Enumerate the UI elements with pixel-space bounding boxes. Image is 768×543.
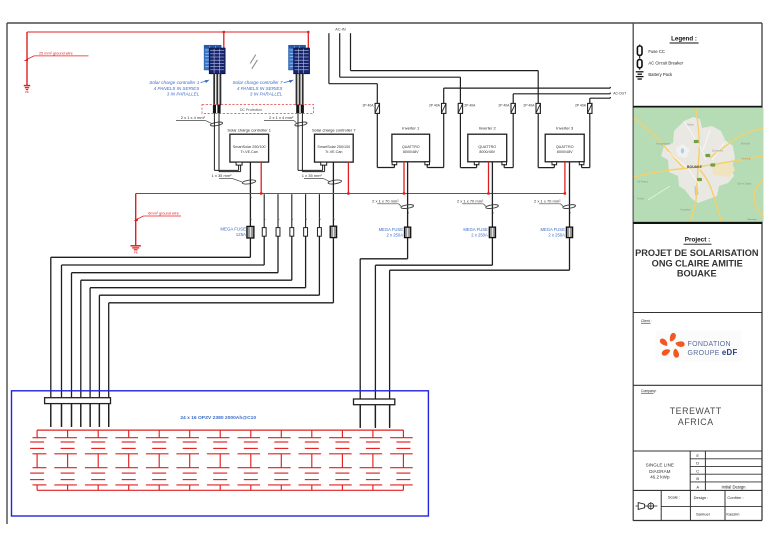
svg-text:3 IN PARALLEL: 3 IN PARALLEL <box>250 92 283 97</box>
cable marker array1 <box>210 121 223 126</box>
wire stubs into left bus bar <box>50 404 52 427</box>
wire: inverter3 positive (red) to DC bus <box>564 162 566 194</box>
fuse block F-A1 (array1 +) <box>213 105 216 113</box>
svg-text:2 x 1 x 70 mm²: 2 x 1 x 70 mm² <box>372 198 399 203</box>
junction: ground bus / array1 <box>223 31 225 33</box>
svg-text:Solar charge controller 1: Solar charge controller 1 <box>149 80 199 85</box>
wire: ground electrode drop <box>26 32 28 85</box>
wire: controller1 negative to fuse <box>249 162 251 226</box>
svg-text:Project :: Project : <box>685 237 711 244</box>
svg-text:MEGA FUSE: MEGA FUSE <box>540 227 565 232</box>
wire: PV string cables array 1 <box>213 74 215 106</box>
svg-text:Commerce: Commerce <box>712 150 724 153</box>
svg-text:2 x 250A: 2 x 250A <box>386 232 403 237</box>
EDF foundation logo <box>656 331 742 362</box>
wire: controller7 negative to fuse <box>332 162 334 226</box>
svg-text:Solar charge controller 7: Solar charge controller 7 <box>312 127 356 132</box>
svg-text:DC Protection: DC Protection <box>240 108 262 112</box>
svg-text:8000/48V: 8000/48V <box>479 150 495 154</box>
map panel border top <box>633 106 762 108</box>
wire: DC bus to PE ground 2 <box>135 194 137 246</box>
svg-text:Konankro: Konankro <box>681 209 692 212</box>
svg-text:AFRICA: AFRICA <box>678 417 714 427</box>
wire: controller7 positive (red) to DC bus <box>347 162 349 193</box>
wire: controller1 positive (red) to DC bus <box>260 162 262 193</box>
svg-text:AC-IN: AC-IN <box>335 28 346 32</box>
svg-text:2P 40A: 2P 40A <box>523 104 535 108</box>
fuse block F-A2 (array1 -) <box>217 105 220 113</box>
svg-text:6mm² ground wire: 6mm² ground wire <box>148 212 179 216</box>
wire: CB5 to inverter3 AC-in tab <box>537 113 539 167</box>
wire: PV array 2 frame ground (red) <box>307 32 309 48</box>
cable marker inverter3 <box>563 204 576 209</box>
svg-text:PE: PE <box>134 250 138 254</box>
wire: AC-IN L to inverter1 breaker <box>328 33 330 83</box>
legend fuse icon <box>639 45 641 59</box>
wire: controller7 negative to battery bus <box>332 238 334 303</box>
junction: ground bus / array2 <box>307 31 309 33</box>
circuit breaker CB2 2P 40A (inverter1 AC-out) <box>442 103 446 113</box>
svg-text:2P 40A: 2P 40A <box>464 104 476 108</box>
svg-text:1 x 35 mm²: 1 x 35 mm² <box>302 173 323 178</box>
wire: AC-OUT line inverter3 <box>589 98 591 103</box>
wire: array2 to controller7 input <box>297 113 299 170</box>
client box divider <box>633 312 762 314</box>
junction: inverter2 + on bus <box>487 192 489 194</box>
svg-text:SINGLE LINE: SINGLE LINE <box>646 462 674 467</box>
circuit breaker CB4 2P 40A (inverter2 AC-out) <box>511 103 515 113</box>
wire: AC-OUT line inverter1 <box>443 88 445 103</box>
svg-text:PROJET DE SOLARISATION: PROJET DE SOLARISATION <box>635 248 759 258</box>
legend AC breaker icon <box>639 58 641 70</box>
svg-text:QUATTRO: QUATTRO <box>478 145 496 149</box>
svg-text:4 PANELS IN SERIES: 4 PANELS IN SERIES <box>237 86 284 91</box>
wire: PE ground bus to PV frames (red) <box>27 31 308 33</box>
svg-text:Dar es Salam: Dar es Salam <box>738 183 752 186</box>
svg-text:DIAGRAM: DIAGRAM <box>649 469 671 474</box>
svg-text:Battery Pack: Battery Pack <box>648 72 673 77</box>
svg-text:Tr-VE.Can: Tr-VE.Can <box>325 150 342 154</box>
junction: inverter1 + on bus <box>403 192 405 194</box>
svg-text:Confirm :: Confirm : <box>727 495 743 500</box>
legend battery icon <box>636 71 644 73</box>
wire: CB2 to inverter1 AC-out tab <box>443 113 445 167</box>
battery bank enclosure (blue) <box>12 391 429 516</box>
wire: controller3 negative to battery bus <box>277 236 279 273</box>
svg-text:D: D <box>696 461 699 466</box>
wire: CB4 to inverter2 AC-out tab <box>512 113 514 167</box>
svg-text:C: C <box>696 468 699 473</box>
svg-text:Scale :: Scale : <box>668 495 680 500</box>
wire: CB1 to inverter1 AC-in tab <box>376 113 378 167</box>
svg-text:Inverter 1: Inverter 1 <box>402 125 420 130</box>
wire: controller4 negative to battery bus <box>291 236 293 280</box>
svg-text:B: B <box>696 476 699 481</box>
svg-text:PE: PE <box>25 90 29 94</box>
svg-text:3 IN PARALLEL: 3 IN PARALLEL <box>167 92 200 97</box>
site map of Bouake <box>634 108 764 222</box>
svg-text:2P 40A: 2P 40A <box>362 104 374 108</box>
svg-text:Tr-VE.Can: Tr-VE.Can <box>241 150 258 154</box>
circuit breaker CB1 2P 40A (inverter1 AC-in) <box>375 103 379 113</box>
wire: AC-OUT line inverter2 <box>512 94 514 104</box>
svg-text:BOUAKE: BOUAKE <box>687 165 703 169</box>
svg-text:Tierkro: Tierkro <box>637 198 645 201</box>
svg-text:2 x 1 x 70 mm²: 2 x 1 x 70 mm² <box>457 198 484 203</box>
svg-text:MEGA FUSE: MEGA FUSE <box>379 227 404 232</box>
svg-text:QUATTRO: QUATTRO <box>556 145 574 149</box>
svg-text:2 x 1 x 4 mm²: 2 x 1 x 4 mm² <box>269 115 294 120</box>
battery bank cells (red) <box>30 430 413 490</box>
svg-text:Ahougnassou: Ahougnassou <box>656 143 671 146</box>
svg-text:2 x 250A: 2 x 250A <box>471 232 488 237</box>
svg-text:TEREWATT: TEREWATT <box>670 406 722 416</box>
junction: controller1 + on bus <box>260 192 262 194</box>
wire: inverter3 negative to fuse and battery bus <box>569 162 571 227</box>
battery bus bar negative (left) <box>45 398 111 404</box>
svg-text:24 x 16 OPZV 2380 2000Ah@C10: 24 x 16 OPZV 2380 2000Ah@C10 <box>180 415 256 421</box>
svg-text:Inverter 3: Inverter 3 <box>556 125 574 130</box>
svg-text:Belleville: Belleville <box>741 144 751 146</box>
wire: controllers 2-6 negatives (omitted units) <box>263 194 265 227</box>
title block bottom row <box>660 490 662 520</box>
svg-text:SmartSolar 250/100: SmartSolar 250/100 <box>317 145 350 149</box>
DC protection enclosure (dashed red) <box>202 105 314 114</box>
svg-text:8000/48V: 8000/48V <box>557 150 573 154</box>
svg-text:AC Circuit Breaker: AC Circuit Breaker <box>648 61 683 66</box>
svg-text:BOUAKE: BOUAKE <box>677 269 717 279</box>
svg-text:ONG CLAIRE AMITIE: ONG CLAIRE AMITIE <box>652 258 743 268</box>
svg-text:QUATTRO: QUATTRO <box>402 145 420 149</box>
junction: inverter3 + on bus <box>564 192 566 194</box>
svg-text:E: E <box>696 453 699 458</box>
cable marker array2 <box>295 121 308 126</box>
svg-text:25 mm² ground wire: 25 mm² ground wire <box>39 51 73 55</box>
svg-text:GROUPE eDF: GROUPE eDF <box>688 348 738 357</box>
circuit breaker CB6 2P 40A (inverter3 AC-out) <box>588 103 592 113</box>
svg-text:Solar charge controller 1: Solar charge controller 1 <box>227 127 271 132</box>
wire: CB3 to inverter2 AC-in tab <box>459 113 461 167</box>
svg-text:46.2 kWp: 46.2 kWp <box>650 475 670 480</box>
svg-text:Legend :: Legend : <box>671 36 697 43</box>
svg-text:8000/48V: 8000/48V <box>403 150 419 154</box>
fuse block F-B2 (array2 -) <box>301 105 304 113</box>
svg-text:Air France: Air France <box>637 181 648 184</box>
wire: PV string cables array 2 <box>296 74 298 106</box>
wire: controller1 negative to battery bus <box>249 238 251 257</box>
wire: inverter2 positive (red) to DC bus <box>488 162 490 194</box>
wire: inverter2 negative to fuse and battery bus <box>491 162 493 227</box>
circuit breaker CB3 2P 40A (inverter2 AC-in) <box>458 103 462 113</box>
wire: CB6 to inverter3 AC-out tab <box>589 113 591 167</box>
svg-text:2 x 1 x 70 mm²: 2 x 1 x 70 mm² <box>534 198 561 203</box>
svg-text:Nimbo: Nimbo <box>687 125 694 127</box>
svg-text:SmartSolar 250/100: SmartSolar 250/100 <box>233 145 266 149</box>
cable marker controller7 battery cable <box>328 179 342 184</box>
fuse MEGA 2x250A inverter1 <box>405 227 411 238</box>
solar panel array 1 (front panel) <box>209 48 225 74</box>
svg-text:Kennedy: Kennedy <box>741 159 751 161</box>
cable marker inverter2 <box>486 204 499 209</box>
svg-text:2P 40A: 2P 40A <box>429 104 441 108</box>
wire: AC-IN L to inverter3 breaker <box>350 33 352 70</box>
wire: array1 to controller1 input <box>213 113 215 170</box>
svg-text:Solar charge controller 7: Solar charge controller 7 <box>232 80 282 85</box>
DC positive bus (red) <box>136 193 565 195</box>
wire stubs into right bus bar <box>359 405 361 428</box>
svg-text:Company:: Company: <box>641 389 657 393</box>
svg-text:Initial Design: Initial Design <box>722 485 747 490</box>
solar panel array 2 (front panel) <box>294 48 310 74</box>
cable marker inverter1 <box>401 204 414 209</box>
wire: AC-IN L to inverter2 breaker <box>339 33 341 77</box>
svg-text:Fuse CC: Fuse CC <box>648 49 665 54</box>
map panel border bottom <box>633 222 762 224</box>
continuation slashes (more arrays) <box>250 55 256 64</box>
svg-text:A: A <box>696 484 699 489</box>
svg-text:1 x 35 mm²: 1 x 35 mm² <box>212 173 233 178</box>
revision table <box>633 450 762 452</box>
svg-text:4 PANELS IN SERIES: 4 PANELS IN SERIES <box>154 86 201 91</box>
wire number ticks <box>250 218 252 219</box>
svg-text:FONDATION: FONDATION <box>688 341 731 348</box>
wire: controller2 negative to battery bus <box>263 236 265 265</box>
fuse MEGA 2x250A inverter2 <box>489 227 495 238</box>
svg-text:MEGA FUSE: MEGA FUSE <box>220 227 246 232</box>
svg-text:Client :: Client : <box>641 319 652 323</box>
battery bus bar (right) <box>354 399 395 405</box>
solar panel array 1 (back panel) <box>204 45 221 70</box>
svg-text:MEGA FUSE: MEGA FUSE <box>463 227 488 232</box>
solar panel array 2 (back panel) <box>289 45 306 70</box>
wire: inverter1 positive (red) to DC bus <box>403 162 405 194</box>
svg-text:Design :: Design : <box>694 495 709 500</box>
fuse MEGA 2x250A inverter3 <box>566 227 572 238</box>
wire: controller6 negative to battery bus <box>318 236 320 295</box>
svg-text:2P 40A: 2P 40A <box>575 104 587 108</box>
svg-text:Kassim: Kassim <box>726 511 740 516</box>
wire: inverter1 negative to fuse and battery bus <box>407 162 409 227</box>
svg-text:125A: 125A <box>236 232 246 237</box>
ground PE1 electrode symbol <box>24 85 30 87</box>
svg-text:2 x 1 x 4 mm²: 2 x 1 x 4 mm² <box>181 115 206 120</box>
junction: controller7 + on bus <box>347 192 349 194</box>
svg-text:2P 40A: 2P 40A <box>498 104 510 108</box>
fuses MEGA 125A controllers 2-6 <box>262 228 266 237</box>
fuse block F-B1 (array2 +) <box>296 105 299 113</box>
circuit breaker CB5 2P 40A (inverter3 AC-in) <box>536 103 540 113</box>
svg-text:Samuel: Samuel <box>696 511 710 516</box>
svg-text:Inverter 2: Inverter 2 <box>479 125 497 130</box>
drawing frame border <box>7 22 762 24</box>
cable marker controller1 battery cable <box>242 179 256 184</box>
wire: controller5 negative to battery bus <box>305 236 307 288</box>
ground PE2 electrode symbol <box>131 245 141 247</box>
projection symbol <box>636 505 658 507</box>
svg-text:Map data: Map data <box>747 218 757 221</box>
fuse MEGA 125A controller1 <box>247 226 254 238</box>
company box divider <box>633 384 762 386</box>
svg-text:AC-OUT: AC-OUT <box>613 92 626 96</box>
wire: PV array 1 frame ground (red) <box>223 32 225 48</box>
svg-text:2 x 250A: 2 x 250A <box>548 232 565 237</box>
fuse MEGA 125A controller7 <box>330 226 336 237</box>
